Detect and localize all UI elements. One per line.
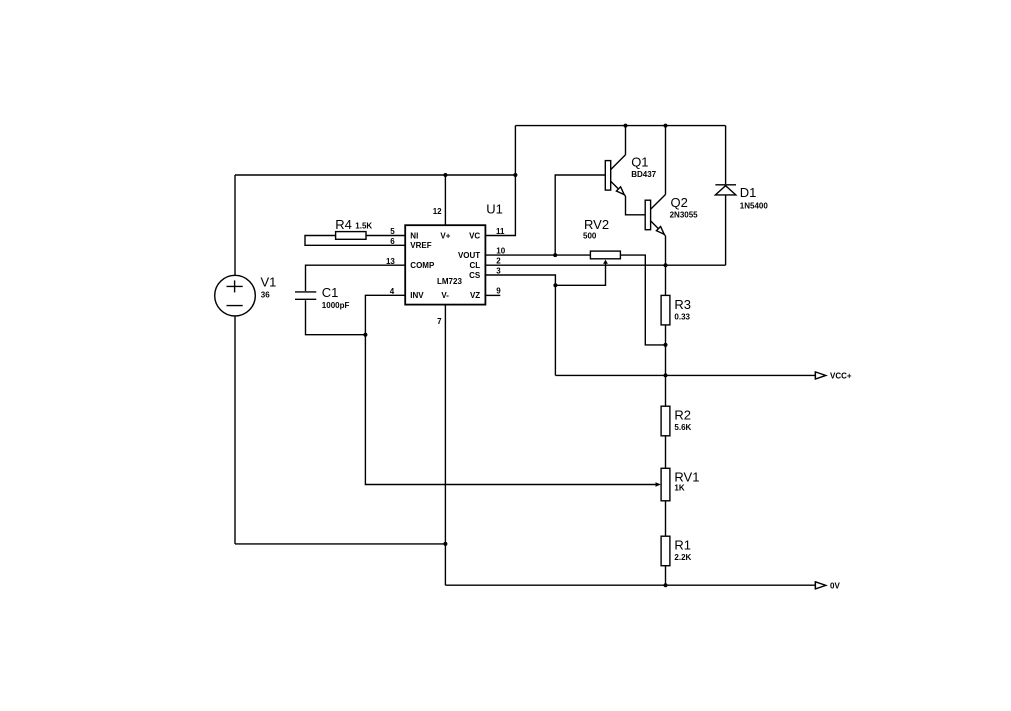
transistor Q2 2N3055: [645, 200, 650, 230]
svg-text:0.33: 0.33: [674, 313, 690, 322]
svg-text:CL: CL: [470, 261, 481, 270]
resistor R3 0.33: [661, 295, 670, 325]
wire top rail: [515, 125, 725, 127]
node Q1 collector on top rail: [624, 124, 628, 128]
svg-text:12: 12: [433, 207, 442, 216]
wire R1 bottom to 0V rail: [665, 566, 667, 586]
svg-text:COMP: COMP: [410, 261, 435, 270]
svg-text:5: 5: [390, 227, 395, 236]
svg-text:Q2: Q2: [671, 195, 688, 210]
wire wiper link to RV2 arrow: [555, 263, 605, 286]
wire VOUT pin 10 to RV2 left: [485, 254, 590, 256]
svg-text:5.6K: 5.6K: [674, 423, 691, 432]
capacitor C1 1000pF: [295, 291, 316, 293]
wire Q2 emitter down to R3 top: [665, 236, 667, 296]
svg-text:1N5400: 1N5400: [740, 202, 769, 211]
svg-text:3: 3: [496, 266, 501, 275]
wire INV pin 4 down to node: [365, 295, 405, 334]
wire R4 right to NI pin 5: [366, 235, 405, 237]
wire Q1 emitter to Q2 base: [626, 196, 646, 215]
svg-text:VCC+: VCC+: [830, 372, 852, 381]
resistor R4 1.5K: [336, 232, 366, 240]
wire 0V rail: [445, 584, 815, 586]
svg-text:R3: R3: [674, 297, 691, 312]
diode D1 1N5400: [725, 126, 727, 185]
svg-text:10: 10: [496, 247, 505, 256]
wire node down and right to RV1 wiper: [365, 335, 656, 485]
svg-text:2N3055: 2N3055: [670, 210, 699, 219]
svg-text:0V: 0V: [830, 582, 840, 591]
svg-text:6: 6: [390, 237, 395, 246]
wire R3 bottom down to R2 top: [665, 325, 667, 406]
svg-text:D1: D1: [740, 185, 757, 200]
wire R4 left U-loop to VREF pin 6: [305, 236, 405, 246]
wire VC pin 11 riser: [485, 175, 515, 236]
svg-text:500: 500: [583, 232, 597, 241]
svg-text:VZ: VZ: [470, 291, 480, 300]
wire Q1 collector riser: [625, 126, 627, 155]
wire top-left rail V1 top to VC riser: [235, 174, 515, 176]
svg-text:C1: C1: [322, 285, 339, 300]
svg-text:CS: CS: [469, 271, 481, 280]
wire VCC+ rail: [555, 374, 815, 376]
wire V+ pin 12 stub: [444, 175, 446, 225]
op-amp U1 LM723 box: [405, 225, 485, 304]
svg-text:INV: INV: [410, 291, 424, 300]
resistor R2 5.6K: [661, 406, 670, 436]
svg-text:VOUT: VOUT: [458, 251, 480, 260]
wire V- pin 7 down to 0V rail: [444, 305, 446, 586]
node VC riser on top-left rail: [513, 173, 517, 177]
node Q2 emitter / R3 / D1 junction: [664, 263, 668, 267]
wire Q1 base riser: [555, 175, 605, 255]
svg-text:R2: R2: [674, 408, 691, 423]
svg-text:1000pF: 1000pF: [322, 301, 350, 310]
svg-text:R4: R4: [335, 217, 352, 232]
svg-text:1K: 1K: [674, 484, 684, 493]
wire riser to top rail: [514, 126, 516, 175]
svg-text:2.2K: 2.2K: [674, 553, 691, 562]
wire C1 bottom to node: [306, 300, 366, 335]
svg-text:RV2: RV2: [584, 217, 609, 232]
potentiometer RV2 500: [590, 251, 620, 259]
svg-text:NI: NI: [410, 231, 418, 240]
svg-text:VREF: VREF: [410, 241, 431, 250]
wire CL pin 2 to D1 bottom: [485, 264, 725, 266]
wire CS pin 3 right then down: [485, 275, 555, 375]
node C1/INV/RV1-wiper junction: [363, 333, 367, 337]
terminal VCC+: [814, 372, 816, 380]
node V1 bottom junction: [443, 542, 447, 546]
svg-text:13: 13: [386, 257, 395, 266]
svg-text:V-: V-: [441, 291, 449, 300]
wire V1 bottom horizontal to V- line: [235, 543, 445, 545]
svg-text:U1: U1: [486, 201, 503, 216]
wire V1 bottom vertical: [234, 316, 236, 544]
svg-text:R1: R1: [674, 538, 691, 553]
terminal 0V: [814, 582, 816, 590]
wire R2 to RV1: [665, 436, 667, 469]
wire Q2 collector riser: [665, 126, 667, 195]
svg-text:2: 2: [496, 257, 501, 266]
node R3 bottom / RV2 link: [664, 343, 668, 347]
wire V1 top vertical: [234, 175, 236, 276]
potentiometer RV1 1K: [661, 468, 670, 501]
transistor Q1 BD437: [605, 161, 610, 191]
svg-text:BD437: BD437: [631, 170, 656, 179]
node CS/wiper junction: [553, 283, 557, 287]
wire RV2 right end down to R3 bottom: [620, 255, 665, 345]
node VCC rail crossing: [664, 373, 668, 377]
resistor R1 2.2K: [661, 536, 670, 566]
svg-text:VC: VC: [469, 231, 480, 240]
node Q1 base riser on VOUT wire: [553, 253, 557, 257]
svg-text:V1: V1: [261, 275, 277, 290]
node R1 bottom on 0V rail: [664, 583, 668, 587]
wire VZ pin 9 stub: [485, 294, 500, 296]
svg-text:11: 11: [496, 227, 505, 236]
wire COMP pin 13 to C1 top: [306, 265, 406, 291]
svg-text:RV1: RV1: [674, 470, 699, 485]
voltage source V1: [215, 275, 256, 316]
node Q2 collector on top rail: [664, 124, 668, 128]
svg-text:4: 4: [390, 287, 395, 296]
svg-text:Q1: Q1: [631, 154, 648, 169]
svg-text:9: 9: [496, 287, 501, 296]
svg-text:7: 7: [437, 317, 442, 326]
svg-text:1.5K: 1.5K: [355, 222, 372, 231]
svg-text:V+: V+: [440, 231, 450, 240]
svg-text:36: 36: [261, 291, 270, 300]
svg-text:LM723: LM723: [437, 277, 462, 286]
wire RV1 to R1: [665, 501, 667, 536]
node V+ riser on top-left rail: [443, 173, 447, 177]
